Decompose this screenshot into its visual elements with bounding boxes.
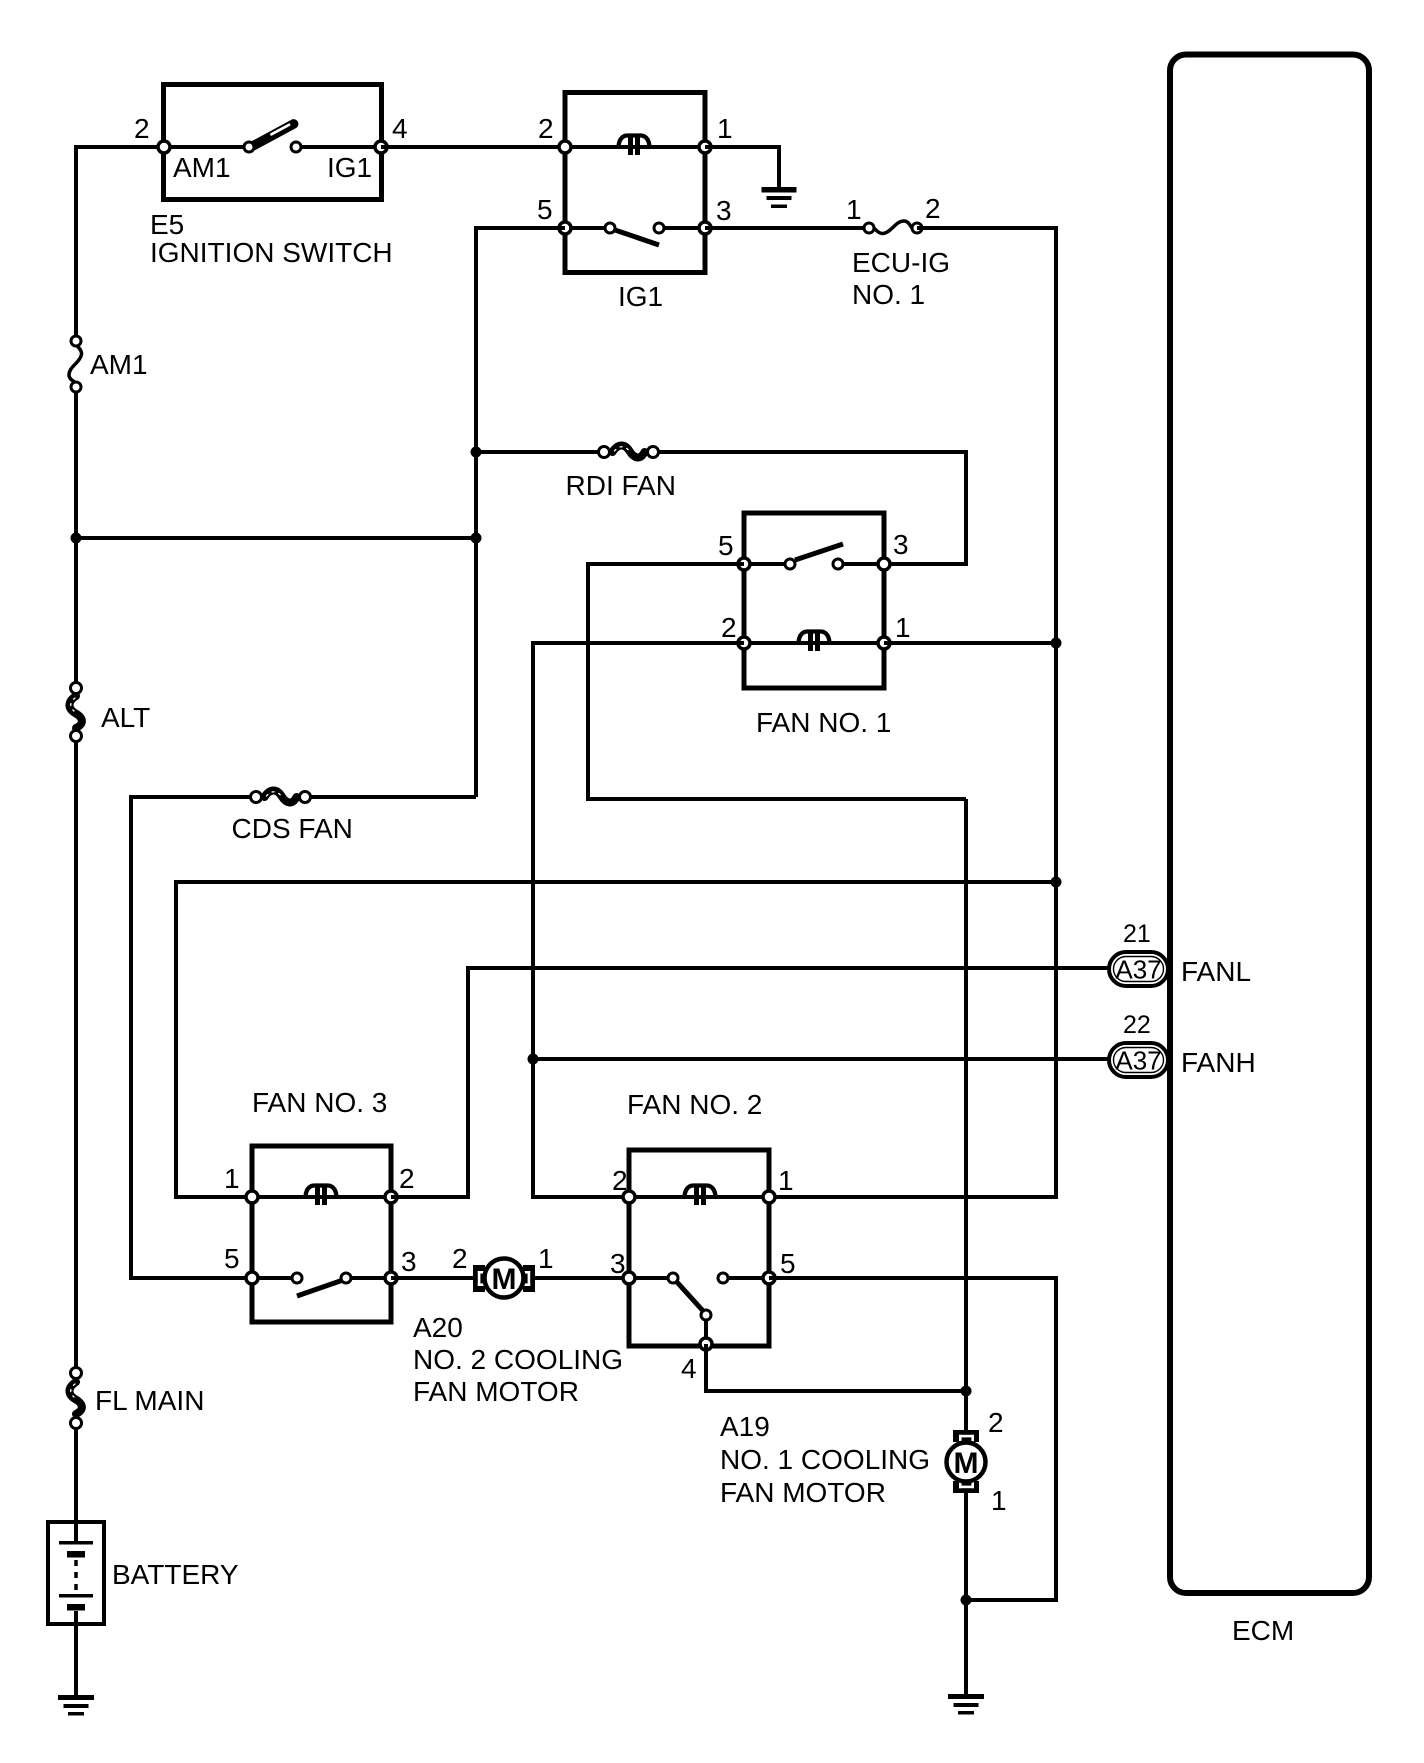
svg-text:E5: E5 [150, 209, 184, 240]
svg-text:5: 5 [718, 530, 734, 561]
svg-text:2: 2 [988, 1407, 1004, 1438]
FAN NO.3 pin 1 terminal [246, 1191, 258, 1203]
wire IG1 pin3 to fuse ECU-IG [705, 226, 864, 230]
svg-text:FAN MOTOR: FAN MOTOR [413, 1376, 579, 1407]
ignition switch E5 box [164, 85, 382, 200]
svg-text:FANH: FANH [1181, 1047, 1256, 1078]
FAN NO.3 pin 5 terminal [246, 1272, 258, 1284]
svg-text:NO. 1 COOLING: NO. 1 COOLING [720, 1444, 930, 1475]
battery [48, 1522, 239, 1624]
fusible link ALT [69, 683, 150, 742]
E5 pin 4 terminal [375, 141, 387, 153]
connector A37 pin 21 FANL [1109, 952, 1168, 986]
wire FAN NO.1 pin5 left down and right to x=966 [588, 564, 966, 799]
FAN NO.1 pin 3 terminal [878, 558, 890, 570]
junction V2/mid wire [471, 533, 482, 544]
svg-text:BATTERY: BATTERY [112, 1559, 239, 1590]
svg-text:2: 2 [538, 113, 554, 144]
fuse ECU-IG NO. 1 [864, 221, 922, 234]
svg-text:AM1: AM1 [173, 152, 231, 183]
svg-text:AM1: AM1 [90, 349, 148, 380]
motor A20 NO.2 cooling fan motor [473, 1259, 535, 1298]
svg-text:2: 2 [721, 612, 737, 643]
svg-text:1: 1 [778, 1165, 794, 1196]
svg-text:4: 4 [392, 113, 408, 144]
FAN NO.2 pin 1 terminal [763, 1191, 775, 1203]
A19 name label [720, 1411, 930, 1508]
FAN NO.1 pin 1 terminal [878, 637, 890, 649]
svg-text:5: 5 [224, 1243, 240, 1274]
svg-text:2: 2 [452, 1243, 468, 1274]
svg-text:4: 4 [681, 1353, 697, 1384]
wire battery to ground [74, 1624, 78, 1697]
FAN NO.2 pin 5 terminal [763, 1272, 775, 1284]
junction FANH [528, 1054, 539, 1065]
wire FAN NO.1 pin2 left to x=533 down to FANH junction and FAN NO.2 coil pin2 [533, 643, 744, 1197]
svg-text:22: 22 [1123, 1011, 1151, 1039]
FAN NO.2 pin 3 terminal [623, 1272, 635, 1284]
fuse ECU-IG NO. 1 name label [852, 247, 950, 310]
IG1 relay coil [565, 136, 705, 156]
svg-text:1: 1 [846, 194, 862, 225]
FAN NO.2 pin 4 terminal [700, 1338, 712, 1350]
svg-text:5: 5 [537, 194, 553, 225]
svg-text:1: 1 [717, 113, 733, 144]
svg-text:ECM: ECM [1232, 1615, 1294, 1646]
E5 switch contacts and key blade [164, 123, 381, 152]
ECM box [1170, 55, 1369, 1647]
FAN NO. 3 relay box [252, 1087, 391, 1322]
net FANL: FAN NO.3 coil pin2 up and right to ECM A37-21 [391, 968, 1110, 1197]
junction bottom return / motor ground net [961, 1595, 972, 1606]
svg-text:ECU-IG: ECU-IG [852, 247, 950, 278]
fusible link FL MAIN [69, 1368, 204, 1429]
svg-text:FAN NO. 1: FAN NO. 1 [756, 707, 891, 738]
svg-text:IGNITION SWITCH: IGNITION SWITCH [150, 237, 393, 268]
E5 labels [150, 209, 393, 268]
svg-text:CDS FAN: CDS FAN [232, 813, 353, 844]
svg-text:FL MAIN: FL MAIN [95, 1385, 204, 1416]
E5 pin 2 terminal [158, 141, 170, 153]
svg-text:2: 2 [134, 113, 150, 144]
wire IG1 pin1 to ground [705, 147, 779, 189]
junction V2/RDI [471, 447, 482, 458]
FAN NO.1 pin 5 terminal [738, 558, 750, 570]
wire FAN NO.2 pin4 down and right to motor A19 net [706, 1344, 966, 1391]
svg-text:FANL: FANL [1181, 956, 1251, 987]
wire x=476 CDS row to left through fuse start [308, 795, 476, 799]
wire mid row y=538 [76, 536, 476, 540]
FAN NO. 1 relay box [744, 513, 891, 738]
FAN NO. 2 relay box [627, 1089, 769, 1346]
wire FAN NO.1 pin1 right to ECU-IG net [884, 641, 1056, 645]
net coil feed: wire y=882 from x=176 to ECU-IG net, down to FAN NO.3 coil pin1 [176, 882, 1056, 1197]
FAN NO.2 pin 2 terminal [623, 1191, 635, 1203]
wire CDS row left of fuse down x=131 to FAN NO.3 pin5 [131, 797, 256, 1278]
junction FAN NO.1 pin1 / ECU-IG net [1051, 638, 1062, 649]
svg-text:A37: A37 [1115, 1046, 1161, 1076]
svg-text:FAN MOTOR: FAN MOTOR [720, 1477, 886, 1508]
IG1 relay box [565, 93, 705, 313]
junction trunk/mid wire [71, 533, 82, 544]
IG1 pin 3 terminal [699, 222, 711, 234]
net FANH: junction on x=533 right to ECM A37-22 [533, 1057, 1110, 1061]
FAN NO.3 pin 2 terminal [385, 1191, 397, 1203]
ground at IG1 pin1 [762, 187, 797, 208]
svg-text:1: 1 [895, 612, 911, 643]
svg-text:A20: A20 [413, 1312, 463, 1343]
svg-text:M: M [492, 1263, 517, 1296]
svg-text:NO. 1: NO. 1 [852, 279, 925, 310]
wire: battery positive trunk x=76 from E5 pin2 down to battery [76, 147, 164, 1524]
IG1 pin 2 terminal [559, 141, 571, 153]
fuse AM1 [69, 336, 148, 392]
svg-text:5: 5 [780, 1248, 796, 1279]
wire E5 pin4 to IG1 relay pin2 [381, 145, 565, 149]
junction pin4 wire / motor A19 net [961, 1386, 972, 1397]
fusible link CDS FAN [232, 790, 353, 844]
FAN NO.3 relay coil [252, 1186, 391, 1206]
FAN NO.3 relay switch [252, 1273, 391, 1296]
wire FAN NO.2 pin5 right down to bottom and left [769, 1278, 1056, 1600]
svg-text:NO. 2 COOLING: NO. 2 COOLING [413, 1344, 623, 1375]
svg-text:1: 1 [538, 1243, 554, 1274]
junction y=882 / ECU-IG net [1051, 877, 1062, 888]
wire IG1 pin5 left and down x=476 [476, 228, 565, 797]
svg-text:2: 2 [399, 1163, 415, 1194]
ground below battery [58, 1695, 94, 1716]
svg-text:M: M [954, 1447, 979, 1480]
svg-text:A19: A19 [720, 1411, 770, 1442]
svg-text:RDI FAN: RDI FAN [566, 470, 676, 501]
svg-text:FAN NO. 3: FAN NO. 3 [252, 1087, 387, 1118]
svg-text:A37: A37 [1115, 955, 1161, 985]
FAN NO.3 pin 3 terminal [385, 1272, 397, 1284]
svg-text:1: 1 [224, 1163, 240, 1194]
svg-text:FAN NO. 2: FAN NO. 2 [627, 1089, 762, 1120]
ground below motor A19 [948, 1694, 984, 1715]
FAN NO.2 relay coil [629, 1186, 769, 1206]
net ECU-IG: wire from fuse to x=1056 down to FAN NO.2 coil pin1 [771, 228, 1056, 1197]
wire RDI row left of fuse [476, 450, 601, 454]
A20 name label [413, 1312, 623, 1407]
wire x=966 from FAN NO.1 row down through motor A19 to ground [964, 799, 968, 1433]
IG1 pin 5 terminal [559, 222, 571, 234]
fusible link RDI FAN [566, 445, 676, 501]
svg-text:21: 21 [1123, 920, 1151, 948]
svg-text:IG1: IG1 [618, 281, 663, 312]
IG1 pin 1 terminal [699, 141, 711, 153]
IG1 relay switch [565, 223, 705, 245]
wire FAN NO.3 pin3 to motor A20 to FAN NO.2 pin3 [391, 1276, 629, 1280]
motor A19 NO.1 cooling fan motor [947, 1430, 986, 1493]
svg-text:3: 3 [716, 195, 732, 226]
FAN NO.1 relay coil [744, 632, 884, 652]
wire RDI row right of fuse down to FAN NO.1 pin3 [653, 452, 966, 564]
FAN NO.1 relay switch [744, 544, 884, 569]
connector A37 pin 22 FANH [1109, 1043, 1168, 1077]
FAN NO.2 relay switch with pin4 throw [629, 1273, 769, 1341]
svg-text:ALT: ALT [101, 702, 150, 733]
FAN NO.1 pin 2 terminal [738, 637, 750, 649]
svg-text:3: 3 [893, 529, 909, 560]
svg-text:IG1: IG1 [327, 152, 372, 183]
svg-text:3: 3 [401, 1246, 417, 1277]
svg-text:1: 1 [991, 1485, 1007, 1516]
svg-text:2: 2 [925, 193, 941, 224]
